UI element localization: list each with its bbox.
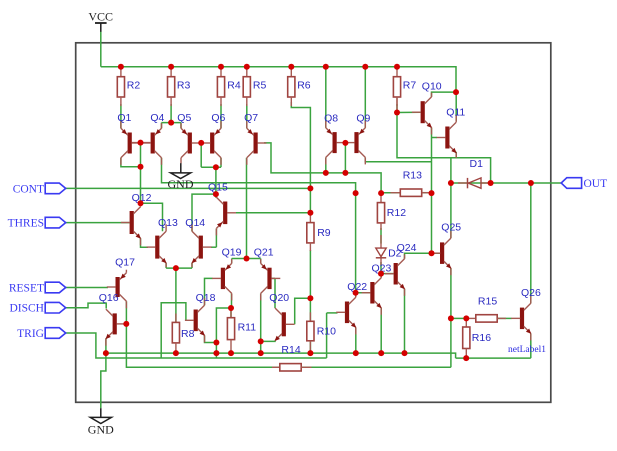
svg-text:Q19: Q19 bbox=[222, 246, 242, 258]
svg-text:VCC: VCC bbox=[88, 9, 113, 23]
svg-text:GND: GND bbox=[88, 422, 114, 436]
svg-text:D1: D1 bbox=[470, 158, 484, 170]
svg-text:Q26: Q26 bbox=[521, 287, 541, 299]
svg-text:Q15: Q15 bbox=[208, 181, 228, 193]
svg-text:THRES: THRES bbox=[8, 218, 44, 230]
svg-text:R9: R9 bbox=[317, 227, 331, 239]
svg-text:Q8: Q8 bbox=[324, 113, 338, 125]
svg-text:R5: R5 bbox=[253, 80, 267, 92]
svg-text:TRIG: TRIG bbox=[17, 328, 44, 340]
svg-text:Q4: Q4 bbox=[150, 112, 164, 124]
svg-text:Q1: Q1 bbox=[117, 112, 131, 124]
svg-text:R12: R12 bbox=[387, 207, 406, 219]
svg-text:Q20: Q20 bbox=[269, 292, 289, 304]
svg-text:R2: R2 bbox=[127, 80, 141, 92]
svg-text:R8: R8 bbox=[181, 328, 195, 340]
svg-text:R10: R10 bbox=[317, 326, 336, 338]
svg-text:R3: R3 bbox=[177, 80, 191, 92]
svg-text:Q17: Q17 bbox=[115, 257, 135, 269]
svg-text:Q21: Q21 bbox=[254, 246, 274, 258]
svg-text:Q11: Q11 bbox=[446, 107, 465, 119]
svg-text:R13: R13 bbox=[403, 170, 422, 182]
svg-text:D2: D2 bbox=[388, 247, 402, 259]
svg-text:Q13: Q13 bbox=[158, 217, 178, 229]
svg-text:R7: R7 bbox=[403, 80, 417, 92]
svg-text:RESET: RESET bbox=[9, 283, 44, 295]
svg-text:DISCH: DISCH bbox=[9, 303, 44, 315]
svg-text:R14: R14 bbox=[281, 344, 300, 356]
svg-text:Q18: Q18 bbox=[196, 292, 216, 304]
svg-text:R15: R15 bbox=[478, 295, 497, 307]
svg-text:Q7: Q7 bbox=[244, 112, 258, 124]
svg-text:netLabel1: netLabel1 bbox=[508, 345, 546, 355]
svg-text:R16: R16 bbox=[472, 332, 491, 344]
svg-text:R11: R11 bbox=[238, 321, 257, 333]
svg-text:R4: R4 bbox=[227, 80, 241, 92]
svg-text:Q5: Q5 bbox=[177, 112, 191, 124]
svg-text:R6: R6 bbox=[297, 80, 311, 92]
svg-text:Q14: Q14 bbox=[185, 217, 205, 229]
svg-text:CONT: CONT bbox=[13, 183, 44, 195]
svg-text:Q9: Q9 bbox=[356, 113, 370, 125]
svg-text:Q10: Q10 bbox=[422, 81, 442, 93]
svg-text:OUT: OUT bbox=[584, 178, 608, 190]
svg-text:Q25: Q25 bbox=[441, 222, 461, 234]
svg-text:Q16: Q16 bbox=[99, 292, 119, 304]
svg-text:GND: GND bbox=[168, 177, 194, 191]
svg-text:Q6: Q6 bbox=[211, 112, 225, 124]
